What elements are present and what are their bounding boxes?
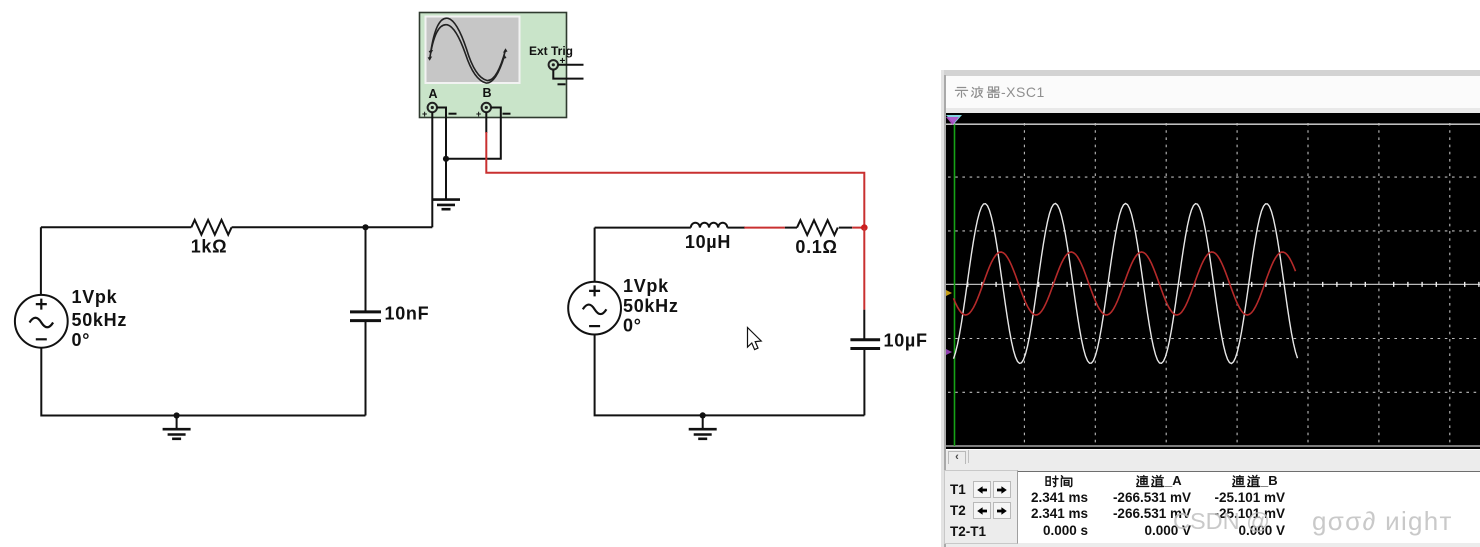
wire B- stub to junction xyxy=(446,108,501,159)
svg-text:1kΩ: 1kΩ xyxy=(191,237,228,257)
scope plot area xyxy=(946,113,1480,449)
ground stub circuit 1 xyxy=(176,416,178,430)
mouse cursor xyxy=(748,328,762,350)
V1 sine xyxy=(30,318,54,328)
Ext Trig terminal xyxy=(549,60,558,69)
red junction node xyxy=(861,224,868,231)
ground node circuit 1 xyxy=(174,412,180,418)
wire C2 top black part xyxy=(863,310,865,339)
red wire segment right xyxy=(852,227,864,229)
channel B position marker xyxy=(946,349,952,355)
svg-text:A: A xyxy=(429,87,438,101)
svg-text:0°: 0° xyxy=(72,330,91,350)
window top border xyxy=(941,70,1480,76)
wire left down to V1 xyxy=(40,227,42,295)
wire V1 down to bottom xyxy=(41,348,365,416)
oscilloscope icon XSC1 body xyxy=(420,13,567,118)
svg-text:10nF: 10nF xyxy=(385,304,430,324)
V2 minus xyxy=(589,325,600,327)
red wire segment mid xyxy=(744,227,785,229)
scroll left button xyxy=(948,451,966,465)
readout white box xyxy=(1016,471,1480,543)
node junction C1 top xyxy=(362,224,368,230)
T2-T1 label xyxy=(950,524,986,539)
svg-text:50kHz: 50kHz xyxy=(72,310,128,330)
T1 label xyxy=(950,482,966,497)
T1 right button xyxy=(993,481,1011,498)
capacitor C1 plates xyxy=(350,312,381,321)
T1 row values xyxy=(996,490,1088,505)
center axis ticks xyxy=(968,282,1479,287)
svg-text:1Vpk: 1Vpk xyxy=(72,287,118,307)
V1 minus xyxy=(36,338,47,340)
wire C2 bottom branch xyxy=(863,350,865,415)
watermark CSDN xyxy=(1173,508,1270,535)
V1 plus xyxy=(36,299,47,310)
oscilloscope icon screen xyxy=(426,17,520,84)
strip under title xyxy=(946,108,1480,113)
terminal A xyxy=(428,103,437,112)
T controls sub panel xyxy=(944,470,1018,544)
title bar xyxy=(946,76,1480,108)
red wire down to C2 xyxy=(863,228,865,310)
svg-text:+: + xyxy=(422,109,427,119)
resistor R1 zigzag xyxy=(191,220,231,235)
readout values xyxy=(941,489,1480,491)
ground (circuit 2) xyxy=(689,429,717,439)
column header 通道_B xyxy=(1231,473,1278,489)
T2 label xyxy=(950,503,966,518)
wire L1 to red segment xyxy=(727,227,745,229)
svg-text:+: + xyxy=(476,109,481,119)
capacitor C2 plates xyxy=(850,340,880,349)
window title xyxy=(954,83,1045,101)
oscilloscope window XSC1 xyxy=(941,70,1480,547)
bottom panel xyxy=(946,464,1480,547)
wire R2 to node xyxy=(839,227,852,229)
svg-text:10µH: 10µH xyxy=(685,232,731,252)
wire top left (V2 to L1) xyxy=(595,227,691,229)
plot background xyxy=(946,113,1480,449)
wire V2 down to bottom xyxy=(595,335,865,416)
svg-text:50kHz: 50kHz xyxy=(623,296,679,316)
oscilloscope icon sine curve 1 xyxy=(431,18,506,80)
scroll strip xyxy=(946,449,1480,465)
source V2 circle xyxy=(568,282,621,335)
grid vertical dashed lines xyxy=(1024,123,1449,446)
T1 left button xyxy=(973,481,991,498)
wire C1 bottom branch xyxy=(365,322,367,416)
resistor R2 zigzag xyxy=(797,220,838,235)
wire B+ pin stub xyxy=(485,112,487,133)
ground node circuit 2 xyxy=(700,412,706,418)
red net wire scope B to circuit 2 xyxy=(486,132,864,228)
T2 left button xyxy=(973,502,991,519)
wire R1 to A-node xyxy=(232,226,433,228)
cursor marker triangles xyxy=(946,115,962,124)
grid top line xyxy=(946,123,1480,125)
CJK glyph defs xyxy=(0,0,1,1)
svg-text:B: B xyxy=(483,86,492,100)
terminal B xyxy=(482,103,491,112)
wire A- stub right xyxy=(437,108,446,159)
wire to R2 xyxy=(785,227,797,229)
V2 sine xyxy=(583,305,607,315)
ground stub circuit 2 xyxy=(702,415,704,429)
wire left down to V2 xyxy=(594,228,596,282)
waveform channel B red xyxy=(954,252,1296,315)
wire A+ down to circuit 1 xyxy=(431,112,433,227)
ground (scope) xyxy=(432,200,460,210)
wire top left (V1 to R1) xyxy=(41,226,191,228)
waveform channel A white xyxy=(954,204,1298,364)
source V1 circle xyxy=(15,295,68,348)
wire junction to ground xyxy=(445,159,447,200)
column header 通道_A xyxy=(1135,473,1182,489)
svg-text:1Vpk: 1Vpk xyxy=(623,276,669,296)
grid bottom line xyxy=(946,445,1480,447)
grid horizontal dashed lines xyxy=(948,177,1480,392)
window left border xyxy=(941,70,944,547)
oscilloscope icon sine curve 2 xyxy=(430,25,505,83)
sine arrowheads xyxy=(428,50,434,61)
T2-T1 row values xyxy=(996,523,1088,538)
V2 plus xyxy=(589,285,600,296)
junction node scope grounds xyxy=(443,156,449,162)
svg-text:Ext Trig: Ext Trig xyxy=(529,44,573,58)
grid center axis line xyxy=(946,283,1480,285)
channel A position marker xyxy=(946,290,952,296)
Ext Trig stub wires xyxy=(553,65,583,79)
wire C1 top branch xyxy=(365,227,367,310)
svg-text:10µF: 10µF xyxy=(884,331,928,351)
T2 right button xyxy=(993,502,1011,519)
trigger green line xyxy=(954,124,956,446)
inductor L1 humps xyxy=(691,223,727,228)
ground (circuit 1) xyxy=(163,429,191,439)
svg-text:0°: 0° xyxy=(623,316,642,336)
T2 row values xyxy=(996,506,1088,521)
column header 时间 xyxy=(1044,473,1074,489)
svg-text:0.1Ω: 0.1Ω xyxy=(795,237,837,257)
